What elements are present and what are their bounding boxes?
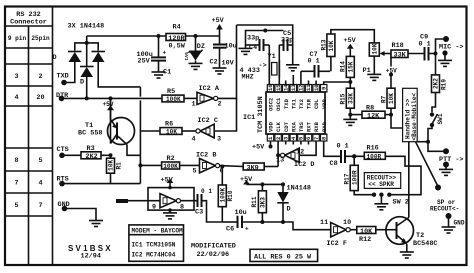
wire to MIC terminal xyxy=(436,39,447,54)
svg-text:IC2 B: IC2 B xyxy=(196,152,216,160)
svg-text:7: 7 xyxy=(313,137,320,140)
svg-text:IC2 C: IC2 C xyxy=(198,117,218,125)
junction clamp diode top xyxy=(281,182,285,186)
svg-text:R16: R16 xyxy=(367,144,379,152)
svg-text:10K: 10K xyxy=(360,228,373,236)
svg-text:TX2: TX2 xyxy=(298,99,305,109)
node RTS xyxy=(57,176,69,187)
wire pin8 to C8 xyxy=(324,141,341,156)
ground GND-left xyxy=(89,221,103,227)
diode D1 (1N4148) xyxy=(53,52,82,63)
svg-text:TX1: TX1 xyxy=(290,98,297,109)
resistor R3 2K2 xyxy=(81,145,111,161)
svg-text:Connector: Connector xyxy=(10,19,47,27)
node CTS xyxy=(57,146,69,158)
svg-text:IC1 TCM3105N: IC1 TCM3105N xyxy=(132,241,176,248)
svg-text:R15: R15 xyxy=(340,93,347,104)
wire watchdog RC line xyxy=(222,221,237,223)
svg-text:VDD: VDD xyxy=(268,121,275,132)
junction MIC node xyxy=(434,52,438,56)
svg-text:+5V: +5V xyxy=(252,144,265,152)
resistor R10 100K vertical xyxy=(218,167,234,223)
diode D2 (1N4148) xyxy=(92,52,106,63)
terminal SP/RECOUT xyxy=(430,185,459,213)
ground under P1 xyxy=(367,74,381,80)
wire pin5 stub xyxy=(300,141,302,145)
svg-text:100K: 100K xyxy=(163,163,178,170)
RS232 connector table grid xyxy=(5,7,53,266)
svg-text:33K: 33K xyxy=(348,93,355,104)
svg-text:+5V: +5V xyxy=(161,177,174,185)
ground under GND terminal xyxy=(442,227,456,233)
svg-text:D: D xyxy=(287,206,291,214)
ground under C2 xyxy=(213,68,227,74)
wire R16 to SW2 right xyxy=(385,156,421,194)
svg-text:VBB: VBB xyxy=(321,98,328,109)
svg-text:MODIFICATED: MODIFICATED xyxy=(191,242,236,250)
title box MODEM - BAYCOM xyxy=(129,225,184,261)
title SV1BSX 12/94 xyxy=(68,244,113,261)
svg-text:2: 2 xyxy=(218,101,222,109)
svg-text:MODEM - BAYCOM: MODEM - BAYCOM xyxy=(132,227,184,234)
svg-text:3: 3 xyxy=(217,136,221,144)
svg-text:R12: R12 xyxy=(359,236,371,244)
svg-text:IC2 D: IC2 D xyxy=(294,161,314,169)
wire IC2B out to 3K9 xyxy=(220,165,244,168)
ground under PTT xyxy=(439,169,453,175)
svg-text:R4: R4 xyxy=(173,24,181,32)
svg-text:RXB: RXB xyxy=(313,121,320,132)
svg-text:R1: R1 xyxy=(116,162,123,170)
svg-text:RXA: RXA xyxy=(290,121,297,132)
wire pin6 stub xyxy=(308,141,310,145)
inverter IC2 F xyxy=(320,219,351,248)
svg-text:GND: GND xyxy=(454,220,465,227)
svg-text:TXD: TXD xyxy=(283,98,290,109)
svg-text:Y1: Y1 xyxy=(268,53,276,61)
capacitor C9 0.1 xyxy=(419,34,436,61)
svg-text:R18: R18 xyxy=(392,42,404,50)
terminal GND right xyxy=(446,213,465,227)
terminal PTT xyxy=(439,148,463,169)
svg-text:12K: 12K xyxy=(367,112,380,120)
svg-text:RECOUT<-: RECOUT<- xyxy=(430,205,459,212)
svg-text:0,5W: 0,5W xyxy=(169,42,186,50)
wire pin14 stub xyxy=(285,81,287,85)
wire pin4 stub xyxy=(292,141,294,145)
svg-text:IC2 F: IC2 F xyxy=(327,240,347,248)
svg-text:IC2 A: IC2 A xyxy=(199,85,220,93)
svg-text:9: 9 xyxy=(320,87,327,90)
resistor R4 120R 0.5W xyxy=(166,24,186,51)
power +5V at R7 xyxy=(386,67,397,76)
inverter IC2 D (mirrored) xyxy=(276,148,314,169)
inverter IC2 B xyxy=(193,152,224,176)
svg-text:15: 15 xyxy=(275,84,282,91)
svg-text:10u: 10u xyxy=(225,43,237,51)
junction R3/R1/T1 base xyxy=(109,153,113,157)
capacitor C7 0.1 xyxy=(301,51,330,85)
table pin numbers xyxy=(14,73,44,210)
svg-text:R2: R2 xyxy=(167,155,175,163)
wire pin1 to +5V xyxy=(252,141,273,152)
svg-text:4: 4 xyxy=(192,136,196,144)
ground under T2 xyxy=(400,252,414,258)
svg-text:9: 9 xyxy=(152,204,156,212)
svg-text:C6: C6 xyxy=(226,226,234,234)
svg-text:10u: 10u xyxy=(235,209,247,217)
svg-text:CLK: CLK xyxy=(275,121,282,132)
svg-text:BC 558: BC 558 xyxy=(78,130,102,138)
svg-text:CDT: CDT xyxy=(283,121,290,132)
svg-text:R8: R8 xyxy=(366,104,374,112)
resistor R8 12K xyxy=(350,104,391,120)
RECOUT/SPKR label box xyxy=(364,173,400,189)
svg-text:7: 7 xyxy=(38,202,42,210)
svg-text:10V: 10V xyxy=(222,60,235,68)
wire riser bus to +12V rail xyxy=(86,36,88,43)
svg-text:13: 13 xyxy=(290,84,297,91)
svg-text:25V: 25V xyxy=(138,58,151,66)
resistor R16 100R xyxy=(364,144,385,160)
capacitor C4 33p xyxy=(246,35,270,53)
transistor T1 BC558 xyxy=(78,98,135,144)
svg-text:TXD: TXD xyxy=(57,73,69,81)
svg-text:TRS: TRS xyxy=(298,121,305,132)
junction R7/R8 xyxy=(389,113,393,117)
svg-text:3K3: 3K3 xyxy=(260,197,267,208)
node DTR xyxy=(56,92,69,101)
svg-text:+: + xyxy=(163,50,167,57)
svg-text:100K: 100K xyxy=(220,188,227,203)
power +5V at C2 xyxy=(212,17,225,36)
svg-text:11: 11 xyxy=(305,84,312,91)
wire IC2C input from riser xyxy=(214,98,236,131)
svg-text:R19: R19 xyxy=(441,79,448,90)
wire T1 collector to riser xyxy=(127,145,140,156)
svg-text:R6: R6 xyxy=(165,121,173,129)
power +5V watchdog xyxy=(161,177,174,190)
wire pin3 stub xyxy=(285,141,287,145)
svg-text:22/02/96: 22/02/96 xyxy=(197,251,230,259)
IC1 top pin names xyxy=(268,97,328,111)
svg-text:OSC2: OSC2 xyxy=(268,98,275,111)
svg-text:->: -> xyxy=(259,62,267,70)
svg-text:4: 4 xyxy=(38,180,42,188)
svg-text:SW1: SW1 xyxy=(437,113,444,124)
resistor R12 10K xyxy=(350,227,386,245)
svg-text:<< SPKR: << SPKR xyxy=(368,181,394,188)
svg-text:9 pin: 9 pin xyxy=(8,35,27,42)
capacitor C1 100u 25V xyxy=(137,36,172,77)
svg-text:2K2: 2K2 xyxy=(86,153,98,161)
svg-text:33p: 33p xyxy=(281,37,293,45)
wiper P1 xyxy=(380,51,391,56)
svg-text:5: 5 xyxy=(193,168,197,176)
svg-text:R5: R5 xyxy=(167,88,175,96)
resistor R11 3K3 vertical xyxy=(251,184,267,222)
wire IC2A out up to crystal loop xyxy=(218,25,237,98)
IC1 top pin boxes 16..9 xyxy=(267,85,327,93)
ground SW2 center xyxy=(374,195,388,210)
junction R10 top xyxy=(220,165,224,169)
text MODIFICATED 22/02/96 xyxy=(191,242,236,259)
svg-text:TXR: TXR xyxy=(306,98,313,109)
svg-text:0 1: 0 1 xyxy=(201,188,212,195)
capacitor C6 10u xyxy=(226,209,262,234)
junction C8/R16/R17 xyxy=(352,154,356,158)
diode D3 (1N4148) middle xyxy=(80,43,94,101)
capacitor C8 0.1 xyxy=(330,142,365,168)
wire pin10 stub xyxy=(315,81,317,85)
svg-text:10K: 10K xyxy=(328,40,335,51)
resistor R18 33K xyxy=(391,42,425,60)
svg-text:R11: R11 xyxy=(251,196,258,207)
junction R11 bottom xyxy=(260,220,264,224)
wire riser x140 (D2/T1/R2/RTS) xyxy=(139,87,141,97)
svg-text:TCM 3105N: TCM 3105N xyxy=(257,96,265,133)
wire crystal loop inner rail xyxy=(246,31,284,49)
wire +12V rail xyxy=(87,35,220,37)
svg-text:+5V: +5V xyxy=(212,17,225,25)
wire R7/R8 node to handheld box xyxy=(391,115,403,128)
svg-text:6: 6 xyxy=(305,137,312,140)
svg-text:3K9: 3K9 xyxy=(247,164,259,172)
ground under R15 xyxy=(343,119,357,125)
svg-text:C8: C8 xyxy=(330,160,338,168)
svg-text:14: 14 xyxy=(282,84,289,91)
svg-text:25pin: 25pin xyxy=(31,35,50,42)
resistor R7 10K vertical xyxy=(380,54,395,115)
svg-text:0 1: 0 1 xyxy=(337,142,349,150)
diode D 1N4148 clamp xyxy=(277,184,311,222)
IC1 top pin numbers xyxy=(267,84,327,91)
wire pin2 stem to TX line xyxy=(277,141,279,167)
wire DTR / +5V rail to R5 xyxy=(62,97,163,99)
wire pin7 to IC2D input xyxy=(299,141,316,155)
junction rail at C1 xyxy=(157,34,161,38)
ground under DZ xyxy=(189,63,203,69)
svg-text:R3: R3 xyxy=(87,145,95,153)
svg-text:12/94: 12/94 xyxy=(81,253,101,261)
svg-text:5V1: 5V1 xyxy=(183,52,189,61)
svg-text:10K: 10K xyxy=(166,129,177,136)
svg-text:8: 8 xyxy=(14,157,18,165)
svg-text:PTT ->: PTT -> xyxy=(439,156,463,164)
svg-text:10K: 10K xyxy=(372,43,379,54)
wire RTS xyxy=(62,183,140,185)
node GND xyxy=(58,201,70,211)
svg-text:3: 3 xyxy=(14,73,18,81)
wire marker to IC2E xyxy=(128,200,160,202)
junction inner rail xyxy=(263,29,267,33)
IC1 bottom pin names xyxy=(268,121,328,132)
svg-text:SW 2: SW 2 xyxy=(393,199,409,207)
svg-text:1: 1 xyxy=(192,101,196,109)
svg-text:OSC1: OSC1 xyxy=(275,97,282,111)
wire TXD to diodes xyxy=(64,62,75,83)
svg-text:IC2 MC74HC04: IC2 MC74HC04 xyxy=(132,251,176,258)
IC1 bottom pin numbers xyxy=(267,136,327,140)
crystal Y1 4.433 MHz xyxy=(240,45,280,85)
capacitor C2 10u 10V xyxy=(210,36,237,68)
zener DZ 5V1 xyxy=(183,36,205,63)
resistor R13 10K vertical xyxy=(320,34,335,71)
junction diode bus to rail xyxy=(85,41,89,45)
resistor 3K9 xyxy=(243,163,278,172)
svg-text:R13: R13 xyxy=(320,39,327,50)
inverter IC2 C (mirrored) xyxy=(192,117,222,144)
svg-text:D: D xyxy=(80,79,84,87)
svg-text:R17: R17 xyxy=(344,173,351,184)
wire diagonal to SP terminal xyxy=(416,142,439,187)
wire +5V clamp line xyxy=(247,183,284,185)
power +5V R14 xyxy=(344,37,357,56)
svg-text:2K2: 2K2 xyxy=(433,78,440,89)
svg-text:C3: C3 xyxy=(195,209,203,217)
svg-text:<Base-Mobile<: <Base-Mobile< xyxy=(411,93,418,141)
svg-text:100R: 100R xyxy=(367,153,382,160)
wire R13 top to P1 xyxy=(331,30,374,43)
svg-text:T2: T2 xyxy=(416,232,424,240)
svg-text:RXD: RXD xyxy=(321,121,328,132)
svg-text:C4: C4 xyxy=(249,44,257,52)
ground under MIC xyxy=(438,60,452,66)
ground under IC2E box xyxy=(163,208,177,219)
junction clamp diode bottom xyxy=(281,220,285,224)
IC2 E box xyxy=(148,188,194,211)
capacitor C3 0.1 xyxy=(181,188,223,222)
svg-text:12: 12 xyxy=(298,84,305,91)
wire pin9 to R14/R15 junction xyxy=(324,82,351,85)
svg-text:2: 2 xyxy=(38,73,42,81)
svg-text:C2: C2 xyxy=(210,59,218,67)
note box ALL RES 0.25 W xyxy=(250,249,318,261)
svg-text:13: 13 xyxy=(276,157,284,165)
resistor R14 15K vertical xyxy=(340,56,355,88)
svg-text:10K: 10K xyxy=(108,159,115,170)
wire CTS to R3 xyxy=(62,154,81,156)
resistor R6 10K xyxy=(140,121,196,136)
wire GND xyxy=(65,209,97,221)
wire T2 collector riser xyxy=(408,142,410,218)
svg-text:10K: 10K xyxy=(388,93,395,104)
wire diode top bus xyxy=(75,43,98,51)
bus marker (solid bar) xyxy=(116,199,128,203)
svg-text:33K: 33K xyxy=(394,52,407,60)
trimmer P1 10K xyxy=(363,43,380,75)
svg-text:R10: R10 xyxy=(227,190,234,201)
svg-text:4: 4 xyxy=(14,94,18,102)
svg-text:7: 7 xyxy=(14,180,18,188)
svg-text:BC548C: BC548C xyxy=(413,240,437,248)
svg-text:ALL RES 0 25 W: ALL RES 0 25 W xyxy=(254,253,312,261)
junction R15/R8 xyxy=(348,113,352,117)
power +5V clamp xyxy=(240,176,253,185)
junction R11 top xyxy=(260,182,264,186)
svg-text:100R: 100R xyxy=(351,170,358,185)
junction pin2/IC2D out xyxy=(276,153,280,157)
terminal MIC xyxy=(439,36,463,60)
svg-text:3X 1N4148: 3X 1N4148 xyxy=(68,23,105,31)
svg-text:DZ: DZ xyxy=(197,43,205,51)
junction R14/R15/pin9 xyxy=(348,80,352,84)
svg-text:0 1: 0 1 xyxy=(308,58,320,66)
svg-text:1N4148: 1N4148 xyxy=(287,185,311,193)
wire node to PTT xyxy=(428,142,444,152)
svg-text:5: 5 xyxy=(14,202,18,210)
svg-text:15K: 15K xyxy=(348,61,355,72)
ground under C1 xyxy=(152,72,166,78)
node TXD xyxy=(57,73,69,86)
resistor R15 33K vertical xyxy=(340,88,355,119)
svg-text:+5V: +5V xyxy=(344,37,357,45)
svg-text:16: 16 xyxy=(267,84,274,91)
resistor R19 2K2 vertical xyxy=(432,54,448,113)
ground inner rail xyxy=(239,48,253,54)
table header text RS 232 Connector xyxy=(8,11,50,42)
svg-text:MHZ: MHZ xyxy=(242,74,254,82)
svg-text:11: 11 xyxy=(320,219,328,227)
wire T2 emitter to ground xyxy=(406,244,408,252)
wire box bottom to SW1 node xyxy=(417,141,428,143)
wire crystal loop outer rail xyxy=(237,25,293,62)
svg-text:CDL: CDL xyxy=(313,98,320,109)
IC1 TCM3105N body xyxy=(243,92,325,134)
svg-text:5: 5 xyxy=(38,157,42,165)
inverter IC2 A xyxy=(192,85,222,109)
ground on loop / pin13 xyxy=(286,62,299,85)
svg-text:RXT: RXT xyxy=(306,121,313,132)
junction SW1/PTT node xyxy=(426,140,430,144)
resistor R1 10K vertical xyxy=(107,155,123,183)
svg-text:MIC ->: MIC -> xyxy=(439,44,463,52)
svg-text:R7: R7 xyxy=(380,95,387,103)
IC1 bottom pin boxes 1..8 xyxy=(267,134,327,141)
resistor R5 100K xyxy=(162,88,197,103)
svg-text:10: 10 xyxy=(343,219,351,227)
junction riser/R2 xyxy=(138,163,142,167)
svg-text:IC1: IC1 xyxy=(243,114,255,122)
Handheld/Base-Mobile label box xyxy=(403,88,419,141)
svg-text:2: 2 xyxy=(275,137,282,140)
wire to IC2F input xyxy=(262,222,330,230)
power +5V tap on DTR line (T1 emitter) xyxy=(103,96,115,110)
switch SW2 contacts xyxy=(372,193,409,207)
transistor T2 BC548C xyxy=(386,217,438,248)
svg-text:8: 8 xyxy=(180,204,184,212)
svg-text:+: + xyxy=(245,226,249,233)
wire pin11 stub xyxy=(308,81,310,85)
svg-text:D: D xyxy=(53,54,57,62)
inverter IC2 E xyxy=(152,194,184,212)
svg-text:0 1: 0 1 xyxy=(419,41,431,49)
svg-text:R14: R14 xyxy=(340,61,347,72)
svg-text:33p: 33p xyxy=(247,35,259,43)
svg-text:100K: 100K xyxy=(166,96,181,103)
resistor R17 100R vertical xyxy=(344,156,374,194)
wire D2 cathode to riser x140 xyxy=(98,62,140,87)
resistor R2 100K xyxy=(140,155,199,170)
svg-text:+5V: +5V xyxy=(103,101,114,108)
junction rail at DZ xyxy=(194,34,198,38)
svg-text:10: 10 xyxy=(313,84,320,91)
svg-text:20: 20 xyxy=(36,94,44,102)
capacitor C5 33p xyxy=(279,30,293,51)
switch SW1 xyxy=(428,112,444,141)
